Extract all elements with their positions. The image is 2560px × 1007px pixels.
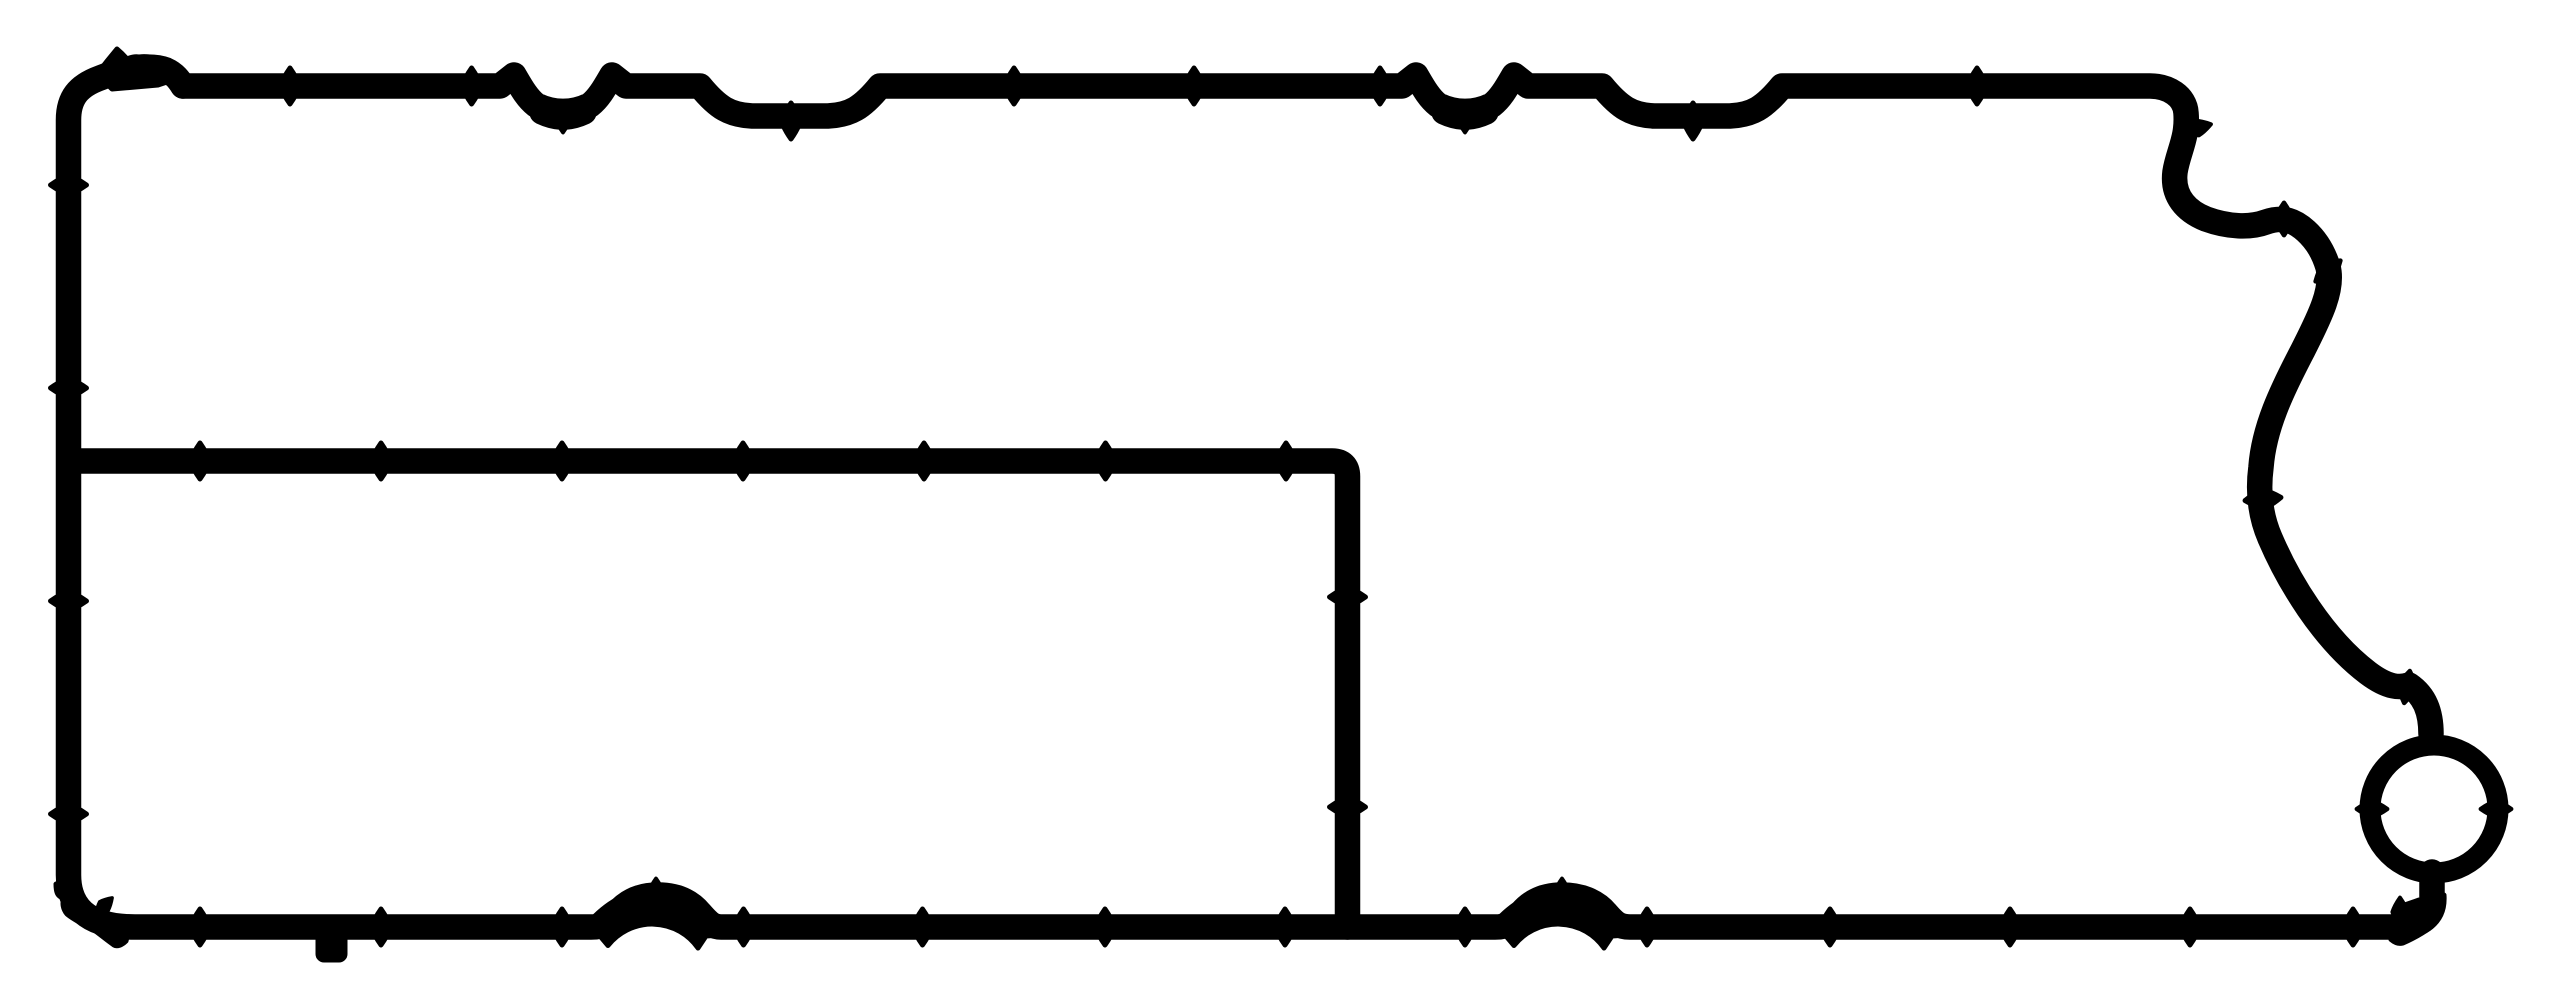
node inner H4 [734, 443, 753, 479]
node inner H1 [191, 443, 210, 479]
horn bump 2 right [1500, 66, 1526, 82]
wire thickening under second top dip [1444, 112, 1486, 117]
bottom-left corner flare [56, 884, 128, 946]
bottom-right junction fill [2396, 900, 2422, 920]
node top T4 in wide dip [782, 103, 801, 139]
node inner H5 [915, 443, 934, 479]
node top T1 [281, 68, 300, 104]
node right curve R3 [2310, 254, 2346, 288]
node left L2 [51, 379, 87, 398]
node inner H6 [1096, 443, 1115, 479]
node right curve R4 [2244, 488, 2282, 510]
arch bump 1 silhouette with feet [591, 890, 721, 948]
node bottom-left corner [91, 893, 116, 918]
node right curve R5 [2396, 670, 2418, 705]
node bottom B3 [553, 909, 572, 945]
node left L3 [51, 592, 87, 611]
node bottom B1 [191, 909, 210, 945]
horn bump 1 left [502, 66, 528, 82]
node bottom B12 [2181, 909, 2200, 945]
node inner H2 [372, 443, 391, 479]
node top T9 in second wide dip [1684, 103, 1703, 139]
node bottom B4 [734, 909, 753, 945]
node bottom B7 [1276, 909, 1295, 945]
node top T7 [1371, 68, 1390, 104]
arch bump 2 silhouette with feet [1497, 890, 1627, 948]
node left L1 [51, 176, 87, 195]
node ring right [2481, 801, 2512, 817]
node bottom B6 [1096, 909, 1115, 945]
tab under bottom edge [318, 930, 345, 960]
node on arch bump 2 peak [1554, 879, 1569, 908]
node top T5 [1005, 68, 1024, 104]
ring bolt-hole bottom right [2370, 745, 2498, 873]
node right curve R1 [2181, 117, 2213, 139]
node top T10 [1968, 68, 1987, 104]
node left L4 [51, 805, 87, 824]
node bottom B11 [2001, 909, 2020, 945]
node bottom B5 [913, 909, 932, 945]
node inner vertical V1 [1330, 588, 1366, 607]
wire gasket top edge with scallops and right-side S-curve down to ring [183, 75, 2431, 734]
node bottom B13 [2344, 909, 2363, 945]
node top T2 [462, 68, 481, 104]
node inner H3 [553, 443, 572, 479]
node on arch bump 1 peak [648, 879, 663, 908]
wire thickening under first top dip [542, 112, 584, 117]
node top T8 in second dip [1457, 104, 1472, 133]
node bottom B8 [1456, 909, 1475, 945]
wire inner divider: horizontal line and vertical drop to bottom edge [70, 461, 1348, 927]
node bottom B9 [1638, 909, 1657, 945]
node top T3 in first dip [555, 104, 570, 133]
node bottom B10 [1821, 909, 1840, 945]
node bottom B2 [372, 909, 391, 945]
wire ring bottom neck, gasket bottom edge with arch bumps, bottom-left corner, left edge, top-left corner [69, 67, 2433, 927]
horn bump 2 left [1404, 66, 1430, 82]
bottom-right corner flare [2391, 895, 2444, 943]
node ring left [2357, 801, 2388, 817]
horn bump 1 right [598, 66, 624, 82]
node right curve R2 [2275, 203, 2292, 235]
corner ear top-left [97, 49, 176, 89]
node inner H7 [1277, 443, 1296, 479]
node top T6 [1185, 68, 1204, 104]
node inner vertical V2 [1330, 798, 1366, 817]
node bottom-right corner [2392, 898, 2407, 927]
